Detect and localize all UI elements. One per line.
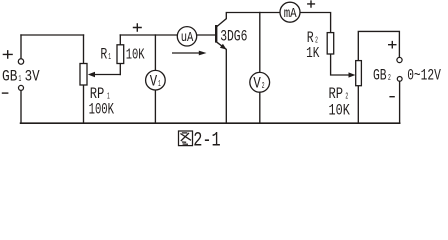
battery GB2 label bbox=[373, 66, 391, 84]
svg-text:V: V bbox=[253, 75, 261, 93]
wire: RP1 bottom lead bbox=[83, 85, 85, 123]
wire: left loop top rail bbox=[21, 34, 84, 36]
potentiometer RP1 body bbox=[80, 64, 87, 86]
svg-text:1: 1 bbox=[19, 73, 22, 84]
svg-text:R: R bbox=[100, 45, 107, 63]
base current arrow Ib bbox=[172, 51, 207, 56]
resistor R1 body bbox=[117, 45, 124, 64]
wire: GB1 positive lead bbox=[20, 35, 22, 59]
svg-text:2: 2 bbox=[315, 34, 318, 45]
node plus sign above base rail bbox=[133, 23, 142, 32]
battery GB1 terminal circle - bbox=[19, 85, 24, 90]
transistor Q1 base bar bbox=[215, 25, 217, 43]
svg-text:100K: 100K bbox=[89, 101, 115, 119]
svg-text:10K: 10K bbox=[329, 102, 351, 120]
battery GB2 plus sign bbox=[388, 41, 397, 49]
battery GB2 terminal circle + bbox=[397, 57, 402, 62]
svg-text:0~12V: 0~12V bbox=[407, 66, 441, 84]
wire: RP2 top lead up and over to GB2 plus bbox=[358, 31, 399, 60]
wire: bottom common rail bbox=[21, 122, 400, 124]
svg-text:uA: uA bbox=[181, 30, 194, 46]
potentiometer RP2 body bbox=[356, 61, 362, 86]
wire: top rail mA to R2 bbox=[300, 13, 331, 33]
wire: R1 bottom lead bbox=[119, 64, 121, 75]
battery GB1 label GB1 3V bbox=[2, 68, 40, 86]
svg-text:2: 2 bbox=[388, 72, 391, 83]
potentiometer RP1 wiper arrow bbox=[88, 72, 95, 78]
wire: R1 top lead bbox=[119, 35, 121, 45]
resistor R2 body bbox=[327, 33, 334, 54]
battery GB2 minus sign bbox=[389, 96, 394, 98]
svg-text:10K: 10K bbox=[126, 47, 145, 64]
battery GB1 plus sign bbox=[3, 50, 13, 59]
svg-text:mA: mA bbox=[284, 6, 297, 22]
mA plus sign bbox=[307, 0, 315, 7]
svg-text:2-1: 2-1 bbox=[193, 129, 220, 148]
voltmeter V2 bbox=[250, 72, 270, 92]
svg-text:3V: 3V bbox=[25, 68, 40, 86]
potentiometer RP2 wiper arrow bbox=[349, 72, 356, 77]
milliammeter mA bbox=[280, 2, 300, 22]
caption figure glyph tu (drawn) bbox=[179, 131, 193, 146]
wire: R2 bottom to RP2 wiper bbox=[331, 54, 350, 75]
wire: RP1 top lead bbox=[83, 35, 85, 64]
wire: V2 bottom lead bbox=[259, 92, 261, 123]
wire: GB1 negative lead bbox=[20, 91, 22, 124]
wire: GB2 negative lead bbox=[399, 81, 401, 123]
wire: V1 top lead bbox=[154, 35, 156, 70]
svg-text:1: 1 bbox=[158, 78, 161, 89]
wire: RP2 bottom lead bbox=[357, 86, 359, 124]
wire: RP1 wiper to R1 bottom bbox=[93, 74, 120, 76]
voltmeter V1 bbox=[146, 70, 166, 90]
svg-text:GB: GB bbox=[2, 68, 17, 86]
wire: base rail left segment bbox=[120, 34, 177, 36]
battery GB1 minus sign bbox=[2, 92, 9, 94]
svg-text:2: 2 bbox=[262, 80, 265, 91]
svg-text:1K: 1K bbox=[306, 45, 319, 62]
wire: base rail right segment to base bbox=[197, 34, 216, 36]
svg-text:V: V bbox=[150, 73, 158, 91]
wire: V1 bottom lead bbox=[154, 90, 156, 123]
potentiometer RP1 label bbox=[89, 85, 115, 118]
wire: collector to top rail bbox=[217, 13, 280, 27]
microammeter uA bbox=[177, 27, 196, 46]
wire: V2 top lead bbox=[259, 13, 261, 73]
svg-text:GB: GB bbox=[373, 66, 387, 84]
battery GB2 terminal circle - bbox=[397, 77, 402, 82]
transistor Q1 emitter with arrow bbox=[217, 42, 227, 123]
battery GB1 terminal circle + bbox=[18, 59, 23, 64]
svg-text:1: 1 bbox=[108, 51, 111, 62]
resistor R1 label R1 bbox=[100, 45, 111, 63]
svg-text:2: 2 bbox=[345, 91, 348, 102]
svg-text:RP: RP bbox=[329, 85, 344, 103]
resistor R2 label bbox=[306, 29, 319, 62]
potentiometer RP2 label bbox=[329, 85, 351, 119]
svg-text:3DG6: 3DG6 bbox=[220, 28, 247, 46]
